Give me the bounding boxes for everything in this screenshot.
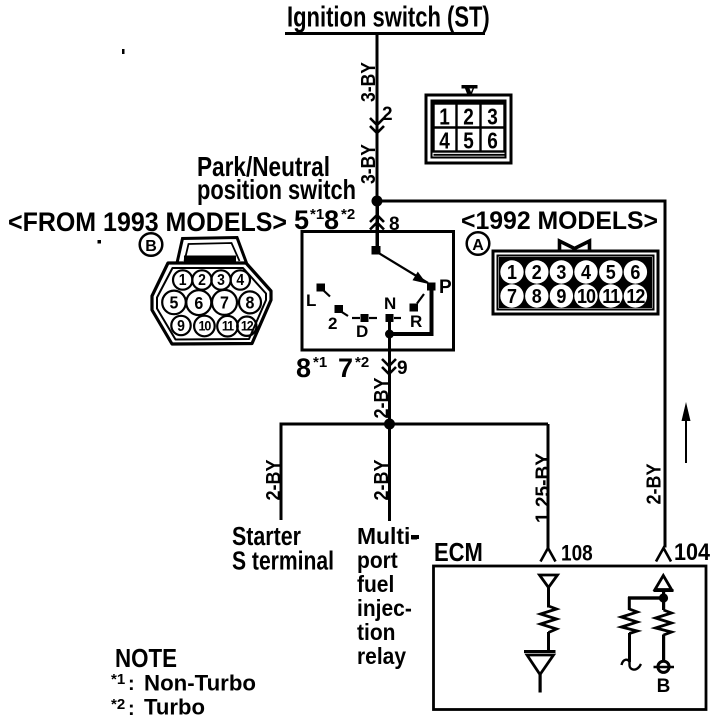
svg-text:port: port (357, 547, 398, 573)
svg-text:Multi-: Multi- (357, 523, 418, 549)
circled A (467, 232, 490, 255)
svg-text:*1: *1 (310, 206, 324, 223)
svg-text:6: 6 (487, 129, 498, 154)
wire ignition switch underline (285, 32, 485, 35)
terminal fork 104 (656, 548, 671, 562)
scan dash (411, 535, 419, 539)
svg-text:10: 10 (577, 285, 595, 308)
ECM 108 input: buffer triangle (540, 575, 558, 588)
svg-text:injec-: injec- (357, 595, 412, 621)
svg-text:11: 11 (602, 285, 620, 308)
svg-text:2-BY: 2-BY (370, 459, 393, 500)
svg-text:2: 2 (532, 261, 542, 284)
svg-text:2-BY: 2-BY (642, 463, 665, 504)
svg-text:3: 3 (217, 272, 225, 289)
svg-text:P: P (439, 277, 452, 298)
svg-text:A: A (472, 237, 484, 254)
svg-text:S terminal: S terminal (232, 547, 334, 576)
arm arrowhead (413, 272, 427, 284)
svg-text:*1: *1 (313, 354, 327, 371)
wire P to N (thick L shape) (390, 288, 432, 334)
node junction above switch (372, 196, 383, 207)
wire to left pull-up (628, 596, 663, 599)
svg-text:11: 11 (222, 318, 234, 334)
svg-text:*2: *2 (341, 206, 355, 223)
wire right branch down to ECM 104 (664, 200, 667, 548)
svg-text:12: 12 (626, 285, 644, 308)
svg-text:9: 9 (556, 285, 566, 308)
connector tab (177, 238, 247, 264)
svg-text:1: 1 (439, 105, 450, 130)
connector 1992 face view (12 pin) (493, 241, 658, 314)
svg-text:4: 4 (581, 261, 591, 284)
connector symbol 2 (double chevron down) (370, 118, 384, 133)
svg-text:2-BY: 2-BY (370, 377, 393, 418)
svg-text:12: 12 (241, 318, 254, 334)
svg-text:relay: relay (357, 643, 407, 669)
wire R2 to hook (628, 633, 631, 662)
svg-text:2: 2 (328, 314, 337, 333)
wire R1 to comparator (547, 632, 550, 652)
node junction at N wire (385, 330, 394, 339)
wire N down through box to bus (388, 318, 391, 424)
wire node to R2 (628, 597, 631, 610)
wire node to R3 (662, 600, 665, 610)
wire relay branch (388, 424, 391, 521)
svg-text:3: 3 (556, 261, 566, 284)
switch moving arm toward P (377, 252, 428, 283)
svg-text::: : (128, 673, 135, 695)
label 5*1 8*2 (switch pins from 1993) (294, 205, 355, 235)
svg-text:3-BY: 3-BY (357, 62, 380, 102)
svg-text:5: 5 (463, 129, 474, 154)
resistor R3 (656, 610, 672, 635)
wire starter branch (280, 424, 283, 520)
connector symbol 9 (double chevron down) (382, 359, 396, 374)
svg-text:8: 8 (296, 353, 311, 383)
connector 1993 face view (12 pin hex) (152, 238, 271, 345)
svg-text:2: 2 (463, 105, 474, 130)
svg-text:108: 108 (561, 541, 593, 566)
terminal fork 108 (541, 548, 556, 562)
contact 2 (335, 305, 349, 316)
svg-text:*2: *2 (355, 354, 369, 371)
park/neutral switch box (302, 232, 454, 351)
contact R (410, 294, 425, 312)
svg-text:1: 1 (507, 261, 517, 284)
svg-text:4: 4 (236, 272, 245, 289)
svg-text:7: 7 (338, 353, 353, 383)
svg-text:5: 5 (606, 261, 616, 284)
svg-text:8: 8 (246, 293, 255, 313)
connector C-01 face view (6 pin) (426, 85, 511, 163)
scan speck (122, 49, 125, 54)
svg-text:2: 2 (198, 272, 206, 289)
svg-text:L: L (306, 291, 316, 310)
comparator bar (524, 650, 556, 653)
svg-text:9: 9 (397, 358, 408, 379)
svg-text:10: 10 (198, 318, 211, 334)
svg-text:6: 6 (194, 293, 203, 313)
svg-text:1: 1 (179, 272, 187, 289)
hook curl (to other circuit) (622, 660, 642, 670)
contact P (427, 283, 436, 291)
svg-text:7: 7 (507, 285, 517, 308)
resistor R1 (541, 606, 557, 633)
wire horizontal to right branch (377, 200, 667, 203)
connector tab (462, 85, 478, 95)
svg-text:6: 6 (630, 261, 640, 284)
wire ECM 108 branch (547, 424, 550, 549)
svg-text:NOTE: NOTE (115, 644, 177, 673)
terminal B symbol (654, 661, 675, 672)
label 8*1 7*2 (switch pins) (296, 353, 369, 383)
svg-text:fuel: fuel (357, 571, 394, 597)
contact D (352, 314, 377, 322)
svg-text:4: 4 (439, 129, 450, 154)
connector body (152, 263, 271, 344)
svg-text:D: D (356, 322, 368, 341)
comparator triangle (527, 655, 554, 675)
svg-text:N: N (384, 294, 396, 313)
ECM 104: diode D1 (triangle up with bar) (655, 576, 672, 590)
contact L (317, 284, 331, 297)
svg-text:2-BY: 2-BY (262, 459, 285, 500)
svg-text:*2: *2 (111, 696, 125, 713)
svg-text:Non-Turbo: Non-Turbo (144, 670, 256, 695)
svg-text:B: B (657, 676, 671, 697)
scan speck 2 (98, 240, 102, 244)
svg-text:2: 2 (382, 104, 393, 125)
svg-text:Ignition switch (ST): Ignition switch (ST) (287, 2, 490, 33)
svg-text:Turbo: Turbo (144, 694, 205, 719)
svg-text:7: 7 (220, 293, 229, 313)
switch pivot contact (372, 246, 381, 255)
svg-text:9: 9 (177, 318, 185, 335)
wire diode to node (662, 591, 665, 596)
wire comparator output (539, 675, 542, 693)
svg-text:5: 5 (170, 293, 179, 313)
wire from ignition switch down (376, 35, 379, 202)
svg-text:ECM: ECM (434, 538, 483, 567)
current direction arrow (682, 402, 691, 463)
svg-text:<1992 MODELS>: <1992 MODELS> (461, 207, 658, 235)
svg-text:position switch: position switch (197, 174, 356, 205)
circled B (140, 233, 163, 256)
resistor R2 (621, 609, 637, 634)
svg-text:8: 8 (532, 285, 542, 308)
svg-text:B: B (145, 238, 157, 255)
svg-text:R: R (410, 312, 422, 331)
wire into switch from junction to pivot (376, 202, 380, 250)
note *1 (111, 670, 256, 695)
node junction on bus (384, 419, 395, 430)
wire R3 to terminal B (662, 635, 665, 661)
contact N (386, 314, 402, 322)
svg-text:3: 3 (487, 105, 498, 130)
note *2 (111, 694, 205, 720)
svg-text:1.25-BY: 1.25-BY (531, 453, 554, 523)
svg-text:104: 104 (674, 538, 711, 565)
svg-text:*1: *1 (111, 671, 125, 688)
wire horizontal bus (280, 423, 549, 426)
svg-text:3-BY: 3-BY (357, 144, 380, 184)
connector symbol 8 (double chevron up) (370, 215, 384, 230)
svg-text:tion: tion (357, 619, 395, 645)
wire 108 buffer to R1 (547, 588, 550, 608)
ECM box (434, 566, 707, 710)
connector tab (M notch) (560, 241, 590, 250)
svg-text::: : (128, 698, 135, 720)
node junction (659, 593, 668, 602)
